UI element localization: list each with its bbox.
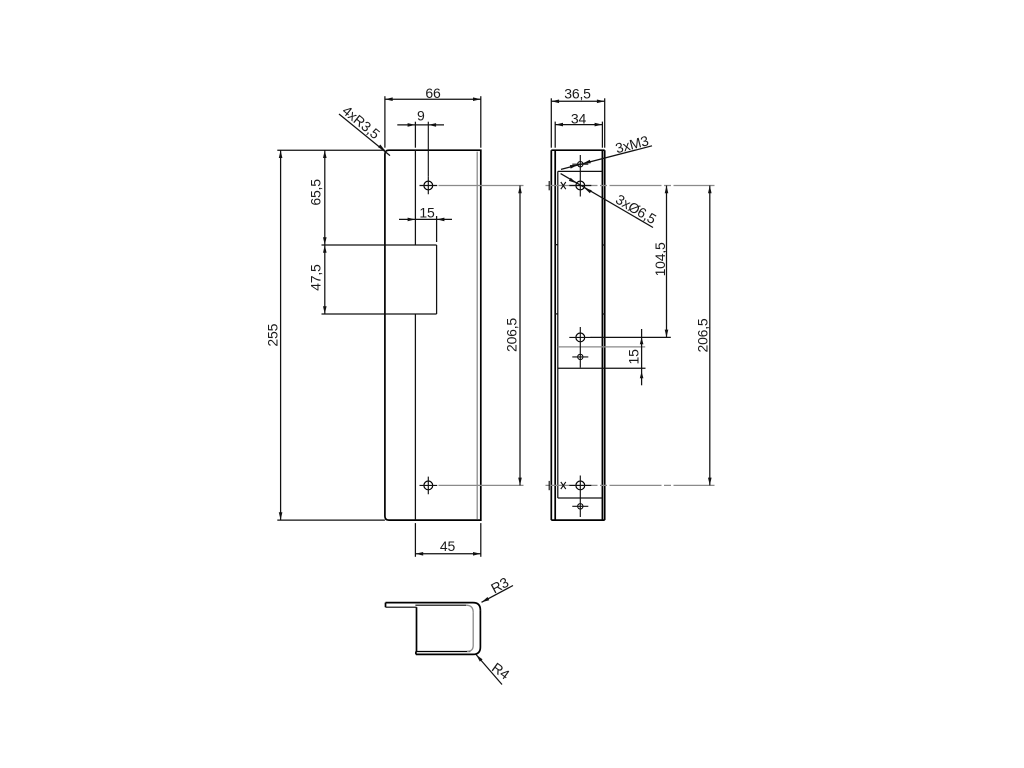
arrow 206.5s top [708,186,712,194]
svg-text:4xR3,5: 4xR3,5 [339,102,383,142]
dim 66 line [385,98,481,100]
top edge extension line left [277,149,385,151]
side view horizontal line bottom [558,497,603,499]
arrow 9 right outside [428,123,436,127]
front top hole crosshair [420,177,438,195]
arrow 34 right [595,123,603,127]
leader R4 [476,655,502,685]
arrow 206.5s bottom [708,478,712,486]
side view middle gray horizontal line [558,346,645,348]
arrow 66 left [385,97,393,101]
side bottom pair vertical crosshair [579,476,581,518]
leader 3xM3 [561,146,652,170]
svg-text:15: 15 [419,204,435,220]
arrow 206.5f top [518,186,522,194]
front view outline [385,150,481,520]
arrow 104.5 top [665,186,669,194]
side view big hole middle [576,333,585,342]
bottom view inner left vertical [416,607,418,651]
notch right edge [436,245,438,314]
side view outer left edge [550,150,552,520]
svg-text:34: 34 [571,111,587,127]
side view big hole bottom [576,481,585,490]
arrow 255 bottom [279,512,283,520]
svg-text:3xM3: 3xM3 [614,132,651,156]
dim 36.5 ext right [604,98,606,147]
dim 104.5 line [666,186,668,338]
dim 45 line [415,553,480,555]
bottom view top strip bottom edge [386,606,417,608]
arrow 255 top [279,150,283,158]
side view M3 hole top [578,162,583,167]
side view M3 hole middle [578,354,583,359]
arrow 206.5f bottom [518,478,522,486]
arrow leader 3xM3 b [570,163,578,168]
dim 65.5 line [324,150,326,245]
arrow 45 right [473,552,481,556]
arrow leader 3xD6.5 a [569,178,578,185]
side view notch tick left top [555,244,558,246]
front view top hole [424,181,433,190]
svg-text:R3: R3 [488,574,511,597]
notch top edge and extension line [322,244,437,246]
arrow 15f right outside [437,218,445,222]
notch bottom edge and extension line [322,313,437,315]
dim 36.5 line [551,100,604,102]
X mark at bottom centerline left of side view [561,482,566,489]
arrow 15f left outside [408,218,416,222]
arrow 36.5 left [551,100,559,104]
svg-text:9: 9 [417,108,425,124]
side view notch tick left bottom [555,313,558,315]
svg-text:255: 255 [265,323,281,346]
side big hole middle crosshair horizontal [569,336,591,338]
dim 45 ext right [480,523,482,557]
side view inner right edge [601,150,603,520]
dim 66 ext right [480,96,482,148]
bottom view bottom inner edge [416,651,470,653]
bottom view top left cap [385,603,387,608]
bottom view bottom left cap [415,652,417,655]
dim 9 line [397,124,444,126]
arrow 15s lower [640,372,644,379]
dim 206.5 front line [519,186,521,486]
arrow 45 left [415,552,423,556]
arrow leader R3 [481,597,490,604]
bottom view bottom right arc [473,647,480,654]
bottom view gray inner right vertical [472,612,474,645]
dim 15 front line [399,218,452,220]
arrow leader 3xM3 a [582,160,590,165]
svg-text:36,5: 36,5 [564,86,591,102]
leader R3 [482,586,514,603]
bottom edge extension line left [277,519,385,521]
side big hole top crosshair horizontal [569,185,591,187]
front view bend line upper segment [414,150,416,245]
svg-text:104,5: 104,5 [652,242,668,276]
side view notch tick right top [602,244,604,246]
side view horizontal line top [558,170,603,172]
bottom view second top line [415,604,466,606]
front view bend line lower segment [414,314,416,520]
tick on bottom centerline [548,481,550,490]
front view bottom hole [424,481,433,490]
side M3 middle crosshair horizontal [572,356,588,358]
side M3 bottom crosshair horizontal [572,505,588,507]
arrow 65.5 bottom [323,237,327,245]
side middle pair vertical crosshair [579,327,581,368]
svg-text:15: 15 [626,349,642,365]
bottom hole centerline gray segment 2 [546,484,715,486]
svg-text:66: 66 [425,85,441,101]
dim 36.5 ext left [550,98,552,147]
front view inner right gray bend tangent [476,152,478,520]
front bottom hole crosshair [420,477,438,495]
side view notch tick right bottom [602,313,604,315]
arrow 66 right [473,97,481,101]
leader 3xD6.5 [561,174,653,228]
bottom view right outer edge [479,610,481,647]
dim 34 line [555,124,602,126]
dim 9 ext left [414,122,416,148]
side view third inner line [557,171,559,498]
bottom view bottom outer edge [416,653,473,655]
top hole centerline gray segment 2 [546,185,715,187]
side view inner left edge [554,150,556,520]
side view top edge [551,149,604,151]
arrow leader 4xR3.5 [378,144,386,152]
bottom hole centerline gray segment 1 [439,484,524,486]
arrow 9 left outside [408,123,416,127]
side view big hole top [576,181,585,190]
dim 15 side line [641,329,643,385]
svg-text:R4: R4 [489,659,513,682]
side view outer right edge [604,150,606,520]
side view M3 hole bottom [578,504,583,509]
side M3 top crosshair horizontal [572,163,588,165]
svg-text:206,5: 206,5 [503,318,519,352]
svg-text:45: 45 [440,538,456,554]
svg-text:206,5: 206,5 [695,318,711,352]
side big hole bottom crosshair horizontal [569,484,591,486]
arrow 15s upper [640,337,644,344]
arrow 65.5 top [323,150,327,158]
bottom view top outer edge with bend arc [386,603,481,611]
dim 45 ext left [414,523,416,557]
side view middle black horizontal line [558,367,646,369]
dim 66 ext left [384,96,386,148]
X mark at top centerline left of side view [561,182,566,189]
dim 34 ext right [601,122,603,148]
top hole centerline gray segment 1 [439,185,524,187]
svg-text:3xØ6,5: 3xØ6,5 [613,191,659,227]
dim 206.5 side line [709,186,711,486]
dim 34 ext left [554,122,556,148]
arrow 36.5 right [597,100,605,104]
front top hole centerline up to 9 dim [427,122,429,177]
svg-text:47,5: 47,5 [308,264,324,291]
tick on top centerline [548,181,550,190]
bottom view gray inner arc bottom [467,646,473,652]
arrow leader 3xD6.5 b [583,186,592,193]
arrow leader R4 [475,653,483,661]
side view bottom edge [551,519,604,521]
arrow 34 left [555,123,563,127]
arrow 104.5 bottom [665,330,669,338]
dim 15 front ext right [436,216,438,242]
extension line from middle hole to 104,5 dim [591,336,671,338]
svg-text:65,5: 65,5 [308,179,324,206]
arrow 47.5 bottom [323,306,327,314]
bottom view gray inner bend arc top [466,605,473,612]
side top pair vertical crosshair [579,155,581,197]
dim 255 line [280,150,282,520]
arrow 47.5 top [323,245,327,253]
dim 47.5 line [324,245,326,314]
leader 4xR3.5 [339,114,390,156]
